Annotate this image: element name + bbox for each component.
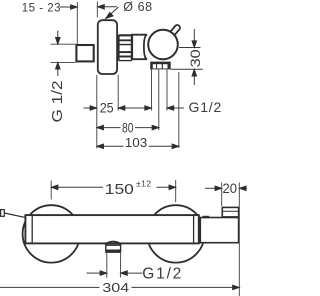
nipple seam line: [222, 210, 239, 212]
dim G1/2 (hose) left-pointing arrow: [167, 106, 184, 111]
hose thread line left: [106, 253, 108, 278]
bottom outlet nut: [106, 245, 121, 250]
svg-text:G1/2: G1/2: [142, 265, 183, 282]
mixer bar body: [25, 215, 198, 243]
dim 80 text: [121, 120, 136, 135]
hose extension line left: [151, 69, 153, 110]
svg-text:15 - 23: 15 - 23: [22, 2, 61, 14]
dim 30 bottom line (nut bottom extended): [171, 68, 203, 70]
right escutcheon circle: [147, 205, 204, 262]
dim 30 down arrow: [192, 29, 197, 48]
dim 80 line with arrows: [97, 125, 159, 130]
hose nut (side view): [150, 62, 171, 70]
svg-text:25: 25: [100, 101, 114, 116]
block weld tick: [203, 216, 210, 218]
right outlet block: [200, 218, 238, 243]
left escutcheon circle: [23, 205, 80, 262]
dim 30 top line: [179, 47, 201, 49]
dim 304 line: [0, 285, 239, 290]
svg-text:30: 30: [187, 49, 203, 67]
wall nipple: [76, 45, 93, 61]
dim 103 text: [124, 135, 149, 150]
svg-text:150: 150: [105, 181, 134, 198]
nipple top extension line: [51, 43, 76, 45]
dim 150 line with arrows: [51, 185, 176, 190]
escutcheon right extension line: [117, 75, 119, 111]
bottom outlet nut collar: [105, 250, 121, 253]
dim 30 up arrow: [192, 69, 197, 85]
G1/2 vertical dim up arrow: [56, 62, 61, 76]
dim 103 line with arrows: [97, 144, 179, 149]
right edge extension line (20 / 304): [238, 183, 240, 296]
dim G1/2 bottom right arrow: [121, 271, 143, 276]
svg-text:80: 80: [122, 120, 134, 135]
svg-text:G1/2: G1/2: [189, 99, 223, 115]
dim 20 left extension line: [221, 183, 223, 207]
hose extension line right: [166, 69, 168, 110]
dim 150 right extension line: [175, 180, 177, 202]
dim 15-23 right-pointing arrow: [60, 5, 117, 10]
dim 20 arrows: [205, 186, 247, 191]
dim 25 left arrow: [84, 106, 97, 111]
valve body: [132, 35, 147, 60]
handle knob circle: [148, 30, 178, 60]
dim 25 right arrow with shared shaft: [118, 106, 151, 111]
handle front extension line: [178, 72, 180, 148]
svg-text:G 1/2: G 1/2: [50, 81, 66, 123]
nipple bottom extension line: [51, 61, 76, 63]
svg-text:304: 304: [102, 280, 129, 295]
dim G1/2 bottom left arrow: [87, 271, 107, 276]
svg-text:±12: ±12: [136, 179, 152, 189]
cartridge ribs: [118, 34, 132, 61]
svg-text:103: 103: [125, 135, 148, 150]
escutcheon disc (side view): [98, 20, 117, 74]
escutcheon left extension line: [96, 75, 98, 149]
hose thread line right: [120, 253, 122, 278]
bottom outlet dome: [105, 241, 122, 244]
left cap seam: [31, 214, 33, 244]
G1/2 vertical dim down arrow: [56, 31, 61, 45]
stub connector line: [4, 213, 24, 217]
right cap seam: [193, 214, 195, 244]
hose centre extension line: [158, 69, 160, 130]
dim 150 left extension line: [50, 181, 52, 200]
handle lever: [168, 24, 181, 38]
dia 68 leader arrow: [106, 7, 119, 19]
left supply stub: [1, 210, 5, 217]
svg-text:Ø 68: Ø 68: [123, 0, 153, 14]
svg-text:20: 20: [223, 181, 238, 196]
top outlet nipple: [222, 207, 238, 217]
wall extension line: [76, 2, 78, 44]
escutcheon back-face extension line: [96, 2, 98, 18]
